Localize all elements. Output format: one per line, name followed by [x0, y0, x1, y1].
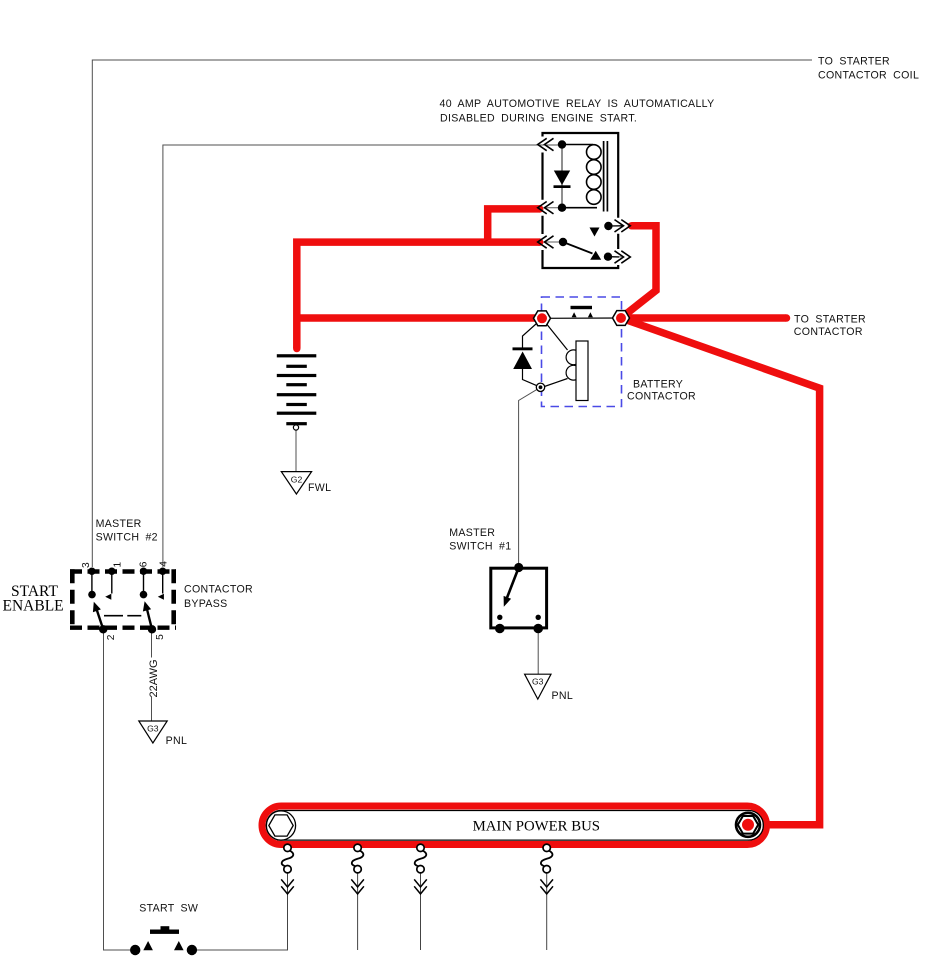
svg-text:BYPASS: BYPASS: [184, 598, 228, 610]
svg-text:1: 1: [112, 562, 123, 568]
svg-text:G2: G2: [291, 475, 303, 485]
svg-text:G3: G3: [147, 724, 159, 734]
svg-text:SWITCH #1: SWITCH #1: [449, 541, 511, 553]
svg-text:BATTERY: BATTERY: [633, 378, 683, 390]
svg-text:22AWG: 22AWG: [148, 659, 160, 697]
svg-text:G3: G3: [532, 677, 544, 687]
svg-text:CONTACTOR: CONTACTOR: [794, 326, 863, 338]
svg-text:5: 5: [155, 634, 166, 640]
svg-text:CONTACTOR COIL: CONTACTOR COIL: [818, 70, 919, 82]
svg-text:CONTACTOR: CONTACTOR: [184, 584, 253, 596]
svg-text:SWITCH #2: SWITCH #2: [96, 532, 158, 544]
svg-text:PNL: PNL: [166, 735, 188, 747]
svg-text:3: 3: [81, 562, 92, 568]
svg-text:4: 4: [158, 561, 169, 567]
svg-text:FWL: FWL: [308, 482, 331, 494]
svg-text:TO STARTER: TO STARTER: [794, 314, 866, 326]
svg-text:6: 6: [138, 561, 149, 567]
svg-text:CONTACTOR: CONTACTOR: [627, 391, 696, 403]
svg-text:START SW: START SW: [139, 903, 198, 915]
svg-text:TO STARTER: TO STARTER: [818, 56, 890, 68]
svg-text:MASTER: MASTER: [96, 518, 142, 530]
svg-text:DISABLED DURING ENGINE START.: DISABLED DURING ENGINE START.: [440, 112, 637, 124]
svg-text:2: 2: [106, 634, 117, 640]
svg-text:ENABLE: ENABLE: [3, 598, 64, 615]
svg-text:PNL: PNL: [552, 690, 574, 702]
svg-text:40 AMP AUTOMOTIVE RELAY IS AUT: 40 AMP AUTOMOTIVE RELAY IS AUTOMATICALLY: [440, 98, 715, 110]
svg-text:MASTER: MASTER: [449, 527, 495, 539]
svg-text:MAIN POWER BUS: MAIN POWER BUS: [473, 818, 600, 834]
